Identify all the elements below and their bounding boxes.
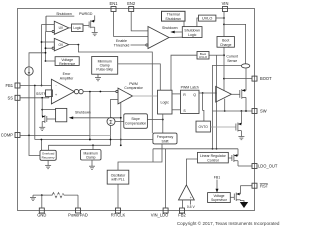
wire driver to SW rail bbox=[224, 99, 226, 112]
svg-text:Compensation: Compensation bbox=[125, 121, 146, 125]
current sense element bbox=[241, 64, 249, 68]
svg-text:LDO_OUT: LDO_OUT bbox=[258, 164, 278, 169]
wire RST bbox=[240, 185, 252, 187]
resistor (gnd to powerpad) bbox=[52, 193, 64, 198]
wire OVTO to LS gate bbox=[211, 126, 236, 128]
wire error amp output bbox=[83, 91, 116, 141]
svg-text:OV: OV bbox=[58, 43, 63, 47]
svg-text:Shift: Shift bbox=[161, 139, 168, 143]
wire vin ldo rail 2 bbox=[216, 55, 218, 150]
pin EN1 bbox=[110, 1, 119, 11]
wire FB1 bbox=[20, 85, 51, 87]
ground (low side FET) bbox=[238, 137, 244, 140]
wire COMP bbox=[20, 135, 111, 156]
svg-text:with PLL: with PLL bbox=[111, 178, 124, 182]
wire boot charge down to driver bbox=[223, 47, 225, 90]
pin SW bbox=[252, 109, 267, 114]
box OVTO bbox=[196, 121, 211, 132]
ground (overload recovery) bbox=[45, 160, 51, 168]
wire VIN_LDO rail bbox=[153, 149, 238, 208]
svg-text:GND: GND bbox=[37, 213, 46, 218]
svg-text:Logic: Logic bbox=[161, 100, 170, 104]
transistor low side FET bbox=[236, 111, 242, 136]
pin EN2 bbox=[127, 1, 136, 11]
svg-text:SW: SW bbox=[260, 109, 267, 114]
logic box (UV/OV) bbox=[72, 24, 84, 32]
wire current sense tap bbox=[212, 65, 242, 149]
box ss input select bbox=[46, 90, 53, 97]
ground (minimum clamp) bbox=[95, 74, 101, 81]
current source (soft start) bbox=[25, 52, 47, 136]
svg-text:RT/CLK: RT/CLK bbox=[111, 213, 126, 218]
svg-text:UVLO: UVLO bbox=[199, 55, 208, 59]
pin PowerPAD bbox=[68, 208, 88, 218]
box shutdown logic bbox=[182, 27, 202, 38]
ground (internal) bbox=[30, 197, 36, 200]
comparator PWM bbox=[110, 82, 143, 104]
svg-text:PWM Latch: PWM Latch bbox=[181, 86, 199, 90]
wire RT/CLK bbox=[117, 184, 119, 208]
box shutdown buffer bbox=[56, 108, 67, 121]
wire logic bottom to slope/freq bbox=[147, 114, 163, 133]
svg-text:UVLO: UVLO bbox=[202, 17, 212, 21]
wire logic to latch R bbox=[172, 93, 181, 95]
svg-text:Comparator: Comparator bbox=[124, 86, 143, 90]
pin VIN_LDO bbox=[151, 208, 169, 218]
wire shutdown output arrow bbox=[162, 26, 182, 33]
ground (SS discharge) bbox=[39, 127, 45, 130]
wire shutdown net label top-left bbox=[46, 12, 74, 31]
box boot charge bbox=[217, 37, 234, 48]
wire boot UVLO right bbox=[209, 54, 224, 56]
svg-text:PowerPAD: PowerPAD bbox=[68, 213, 88, 218]
wire LDO_OUT bbox=[238, 165, 252, 167]
box PWM latch bbox=[181, 86, 200, 114]
svg-text:Charge: Charge bbox=[220, 43, 232, 47]
svg-text:+: + bbox=[190, 196, 192, 200]
svg-text:FB1: FB1 bbox=[5, 83, 13, 88]
wire boot UVLO left to PWM logic bbox=[171, 55, 197, 90]
svg-text:Supervisor: Supervisor bbox=[211, 198, 228, 202]
svg-text:Shutdown: Shutdown bbox=[75, 110, 91, 114]
svg-text:Logic: Logic bbox=[73, 26, 81, 30]
svg-text:Copyright © 2017, Texas Instru: Copyright © 2017, Texas Instruments Inco… bbox=[177, 220, 280, 226]
label FB1 (supervisor) bbox=[214, 176, 220, 193]
svg-text:R: R bbox=[183, 93, 186, 97]
wire bus B bbox=[48, 144, 110, 150]
amplifier LDO error amp bbox=[179, 185, 195, 200]
wire shutdown arrow into buffer bbox=[69, 103, 122, 147]
wire bus A bbox=[35, 139, 153, 151]
transistor SS discharge bbox=[42, 115, 56, 127]
ground (maximum clamp) bbox=[89, 160, 95, 169]
svg-text:UV: UV bbox=[59, 26, 64, 30]
box UVLO bbox=[199, 15, 216, 21]
svg-text:EN2: EN2 bbox=[127, 1, 136, 6]
svg-text:VIN: VIN bbox=[222, 1, 229, 6]
wire UV output bbox=[69, 27, 72, 29]
svg-text:Shutdown: Shutdown bbox=[56, 12, 72, 16]
wire UVLO left to shutdown logic bbox=[197, 18, 199, 27]
svg-text:Q: Q bbox=[193, 93, 196, 97]
pin VIN bbox=[222, 1, 229, 11]
svg-text:Clamp: Clamp bbox=[86, 155, 96, 159]
ground arrow (RST fet) bbox=[240, 202, 248, 208]
svg-text:FB2: FB2 bbox=[178, 213, 186, 218]
gm output circles bbox=[74, 89, 83, 93]
erase resistor straight segment bbox=[53, 194, 64, 196]
svg-text:COMP: COMP bbox=[1, 133, 14, 138]
box boot UVLO bbox=[197, 52, 209, 60]
amplifier error amplifier bbox=[51, 72, 74, 104]
svg-text:Pulse-Skip: Pulse-Skip bbox=[96, 68, 113, 72]
box thermal shutdown bbox=[162, 11, 186, 21]
wire sigma to PWM comparator bbox=[109, 99, 111, 117]
wire oscillator to frequency shift bbox=[118, 144, 162, 170]
wire UVLO right to VIN rail bbox=[216, 17, 225, 19]
pin RST (active low) bbox=[252, 183, 269, 189]
box linear regulator control bbox=[198, 152, 229, 163]
pin FB2 bbox=[178, 208, 186, 218]
svg-text:Σ: Σ bbox=[109, 120, 113, 126]
svg-text:S: S bbox=[183, 109, 186, 113]
wire EN2 bbox=[131, 12, 148, 31]
wire sigma down bbox=[110, 126, 112, 146]
svg-text:+: + bbox=[55, 92, 58, 97]
pin BOOT bbox=[252, 76, 272, 81]
svg-text:Threshold: Threshold bbox=[114, 43, 130, 47]
svg-text:OVTO: OVTO bbox=[199, 125, 209, 129]
svg-text:PWRGD: PWRGD bbox=[79, 12, 93, 16]
svg-text:Control: Control bbox=[207, 158, 219, 162]
amplifier gate driver bbox=[216, 86, 232, 102]
wire OV output bbox=[69, 44, 153, 133]
box minimum clamp pulse-skip bbox=[92, 57, 118, 75]
box maximum clamp bbox=[81, 150, 102, 161]
svg-text:Recovery: Recovery bbox=[42, 156, 55, 160]
svg-text:Shutdown: Shutdown bbox=[184, 28, 200, 32]
svg-text:Shutdown: Shutdown bbox=[165, 17, 181, 21]
svg-text:Shutdown: Shutdown bbox=[162, 26, 178, 30]
wire latch Q to driver bbox=[199, 92, 217, 121]
wire sigma to slope comp bbox=[115, 121, 124, 123]
pin COMP bbox=[1, 133, 20, 138]
svg-text:FB1: FB1 bbox=[214, 176, 220, 180]
wire LDO error amp output bbox=[186, 159, 197, 185]
wire EN1 bbox=[114, 12, 149, 37]
transistor RST pulldown bbox=[230, 186, 244, 203]
svg-text:VIN_LDO: VIN_LDO bbox=[151, 213, 169, 218]
wire VIN rail bbox=[223, 12, 246, 64]
comparator UV bbox=[52, 21, 69, 34]
wire PWM comparator output bbox=[133, 95, 158, 97]
comparator OV bbox=[52, 38, 69, 51]
svg-text:Enable: Enable bbox=[116, 39, 127, 43]
box overload recovery bbox=[40, 150, 56, 160]
box PWM logic bbox=[158, 90, 173, 114]
summing node bbox=[107, 118, 115, 126]
svg-text:Reference: Reference bbox=[59, 62, 75, 66]
box oscillator with PLL bbox=[107, 170, 129, 184]
pin GND bbox=[37, 208, 46, 218]
box voltage reference bbox=[55, 57, 79, 66]
label Enable Threshold bbox=[114, 39, 146, 47]
comparator enable bbox=[146, 27, 169, 49]
wire voltage reference left bbox=[46, 60, 56, 62]
box slope compensation bbox=[124, 114, 148, 129]
box voltage supervisor bbox=[208, 193, 231, 203]
ground (PWRGD fet) bbox=[92, 33, 98, 36]
wire minimum clamp output bbox=[118, 64, 161, 90]
svg-text:EN1: EN1 bbox=[110, 1, 119, 6]
box frequency shift bbox=[153, 133, 177, 144]
wire BOOT bbox=[224, 78, 252, 80]
wire logic to latch S bbox=[172, 109, 181, 111]
svg-text:BOOT: BOOT bbox=[260, 76, 272, 81]
transistor LDO pass FET bbox=[228, 154, 238, 166]
svg-text:RST: RST bbox=[260, 184, 269, 189]
node FB rail bbox=[41, 25, 55, 87]
transistor high side FET bbox=[231, 68, 246, 111]
pin RT/CLK bbox=[111, 208, 126, 218]
wire thermal shutdown to shutdown logic bbox=[183, 21, 185, 27]
svg-text:-: - bbox=[55, 83, 57, 88]
pin LDO_OUT bbox=[252, 164, 278, 169]
wire SS discharge node bbox=[41, 98, 55, 117]
wire SW bbox=[213, 110, 253, 112]
svg-text:SS: SS bbox=[8, 95, 14, 100]
svg-text:0.8 V: 0.8 V bbox=[187, 205, 196, 209]
pin SS bbox=[8, 95, 20, 100]
pin FB1 bbox=[5, 83, 20, 88]
wire SS bbox=[20, 92, 49, 99]
wire enable comparator output bbox=[169, 36, 182, 38]
node reference rail bbox=[45, 16, 53, 62]
transistor PWRGD pulldown bbox=[83, 15, 95, 32]
wire FB2 bbox=[182, 200, 184, 208]
wire 0.8V reference bbox=[187, 200, 196, 209]
wire internal ground net bbox=[33, 194, 78, 208]
svg-text:Logic: Logic bbox=[188, 33, 197, 37]
svg-text:Sense: Sense bbox=[227, 59, 237, 63]
label current sense bbox=[226, 55, 238, 63]
svg-text:Amplifier: Amplifier bbox=[60, 76, 74, 80]
